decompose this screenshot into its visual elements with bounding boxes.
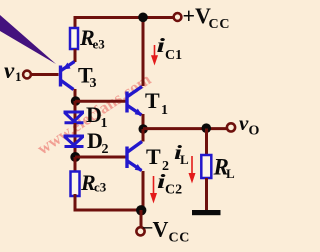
transistor T1 (NPN)	[127, 87, 142, 116]
node junction RL	[202, 123, 212, 133]
wire Rc3 to bottom rail	[74, 194, 77, 212]
wire junction to Rc3	[74, 157, 77, 172]
resistor RL	[201, 155, 211, 178]
wire v1 to T3 base	[32, 73, 59, 76]
svg-text:C1: C1	[165, 48, 182, 63]
svg-text:L: L	[226, 166, 235, 181]
transistor T2 (NPN)	[127, 142, 142, 171]
svg-text:+V: +V	[183, 3, 212, 28]
wire RL branch	[205, 129, 208, 156]
T1 emitter arrow	[135, 109, 143, 116]
wire bottom rail	[74, 209, 142, 212]
wire RL to ground	[205, 178, 208, 211]
svg-text:T: T	[146, 144, 161, 169]
wire base of T1	[75, 100, 126, 103]
diode D2	[64, 136, 85, 147]
svg-text:v: v	[239, 111, 249, 135]
wire output to vO	[143, 127, 227, 130]
svg-text:3: 3	[90, 76, 97, 91]
wire Re3 to T3 emitter	[74, 49, 77, 62]
svg-text:L: L	[180, 152, 189, 167]
T3 emitter arrow (points to bar, PNP)	[63, 63, 71, 70]
terminal vO circle	[227, 123, 235, 131]
node junction top rail	[138, 12, 148, 22]
svg-text:1: 1	[15, 69, 22, 84]
wire T3 collector down	[74, 89, 77, 101]
svg-text:e3: e3	[93, 37, 106, 52]
wire T1 collector vertical	[142, 18, 145, 87]
ground	[192, 210, 221, 215]
svg-text:T: T	[145, 88, 160, 113]
purple pointer wedge	[0, 15, 56, 64]
node junction bottom rail	[136, 205, 146, 215]
svg-text:C2: C2	[165, 183, 182, 198]
current iC2 arrow	[151, 176, 156, 201]
wire D1 to D2	[74, 123, 77, 160]
wire T2 collector	[142, 129, 145, 142]
svg-text:2: 2	[102, 142, 109, 157]
current iC1 arrow	[152, 45, 157, 63]
svg-text:D: D	[86, 102, 102, 127]
wire node to -Vcc terminal	[140, 210, 143, 227]
wire junction to D1	[74, 101, 77, 135]
svg-text:D: D	[87, 128, 103, 153]
svg-text:v: v	[4, 58, 15, 83]
svg-text:O: O	[249, 124, 260, 139]
terminal -Vcc circle	[136, 227, 144, 235]
wire T1 emitter to node	[142, 114, 145, 129]
svg-text:c3: c3	[94, 180, 107, 195]
svg-text:CC: CC	[209, 17, 231, 32]
terminal +Vcc circle	[174, 13, 182, 21]
node junction D2 / T2 base / Rc3	[70, 152, 80, 162]
transistor T3 (PNP)	[61, 62, 75, 90]
wire base of T2	[75, 156, 126, 159]
node junction T1/T2 output	[139, 124, 148, 133]
T2 emitter arrow	[135, 164, 143, 171]
terminal v1 circle	[23, 71, 31, 79]
diode D1	[64, 112, 85, 123]
wire T2 emitter to bottom rail	[142, 171, 145, 210]
node junction at T3 collector / D1 / T1 base	[71, 96, 81, 106]
svg-text:1: 1	[161, 103, 168, 118]
wire top rail	[75, 18, 173, 31]
svg-text:CC: CC	[169, 231, 190, 246]
resistor Re3	[70, 28, 78, 49]
resistor Rc3	[71, 172, 80, 197]
svg-text:V: V	[153, 217, 169, 242]
current iL arrow	[190, 156, 195, 181]
